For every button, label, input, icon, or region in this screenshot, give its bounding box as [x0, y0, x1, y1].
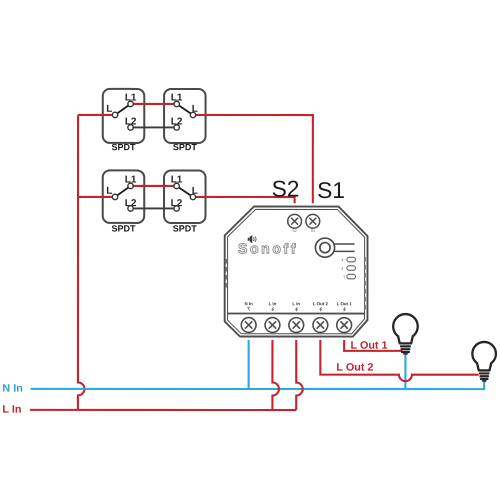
- SW4 pin labels L, L1, L2: [171, 175, 198, 210]
- SW3 pins: [112, 183, 133, 211]
- wire SW2.L to U1 terminal S1 (red): [193, 115, 313, 203]
- svg-text:S2: S2: [292, 229, 296, 233]
- SW1 lever: [115, 104, 131, 115]
- U1 LED labels: [341, 258, 345, 279]
- U1 terminal L Out 2: [313, 318, 328, 333]
- switch SW2 (SPDT) box: [164, 89, 206, 143]
- switch SW1 (SPDT) box: [103, 89, 145, 143]
- wire L Out 2 to lamp DS2 (red, dips under DS1 neutral): [320, 340, 478, 381]
- U1 terminal N In: [241, 318, 256, 333]
- svg-text:L Out 1: L Out 1: [337, 301, 353, 306]
- SW4 pins: [174, 183, 196, 211]
- U1 pairing button icon: [315, 238, 354, 257]
- svg-text:S2: S2: [272, 176, 300, 202]
- wire SW1 common feed (red): [78, 114, 114, 116]
- svg-text:?: ?: [343, 275, 345, 279]
- U1 terminal separation line: [228, 312, 365, 314]
- switch SW3 (SPDT) box: [103, 170, 145, 223]
- SW1 pin labels L, L1, L2: [106, 93, 137, 128]
- wire N In drop from U1 (blue): [248, 340, 250, 389]
- wire SW1.L1 to SW2.L1 (red traveller): [131, 103, 177, 105]
- wire L In riser (red, feeds SW1/SW3 commons, hops over N bus): [78, 115, 85, 410]
- U1 bottom terminal labels: [245, 301, 353, 306]
- svg-text:SPDT: SPDT: [112, 142, 137, 152]
- wire L In drop b from U1 (red, hops over N bus): [296, 340, 303, 410]
- SW2 lever: [177, 104, 193, 115]
- wire SW4.L to U1 terminal S2 (red): [193, 197, 295, 203]
- SW2 pin labels L, L1, L2: [171, 93, 198, 128]
- svg-text:4⁻: 4⁻: [341, 258, 345, 262]
- U1 LED indicators: [347, 257, 356, 279]
- svg-text:N In: N In: [2, 383, 22, 395]
- U1 terminal L Out 1: [337, 318, 352, 333]
- svg-text:L Out 2: L Out 2: [336, 362, 373, 374]
- U1 terminal S2: [288, 214, 302, 228]
- U1 terminal S1: [306, 214, 320, 228]
- svg-text:SPDT: SPDT: [112, 224, 137, 234]
- switch SW4 (SPDT) box: [164, 170, 206, 223]
- lamp DS1 (bulb): [393, 314, 418, 355]
- U1 left edge clips: [225, 259, 227, 288]
- relay module U1 (Sonoff Dual) body outline: [225, 206, 368, 336]
- wire DS1 neutral drop (blue): [404, 353, 406, 390]
- U1 terminal L In a: [265, 318, 280, 333]
- wire L bus (red live): [30, 409, 296, 411]
- svg-text:L Out 2: L Out 2: [313, 301, 329, 306]
- wire N bus (blue neutral, to lamp DS2): [31, 380, 485, 389]
- SW3 lever: [115, 186, 131, 197]
- U1 bottom terminal rating marks: [247, 307, 345, 311]
- SW3 pin labels L, L1, L2: [106, 175, 137, 210]
- wire L Out 1 to lamp DS1 (red): [344, 340, 402, 351]
- svg-text:L: L: [106, 186, 112, 197]
- wire SW3.L1 to SW4.L1 (red traveller): [131, 185, 177, 187]
- svg-text:L In: L In: [2, 404, 21, 416]
- wire SW3.L2 to SW4.L2 (traveller): [131, 207, 177, 209]
- U1 terminal L In b: [289, 318, 304, 333]
- svg-text:L: L: [106, 104, 112, 115]
- svg-text:SPDT: SPDT: [173, 224, 198, 234]
- svg-text:L In: L In: [292, 301, 300, 306]
- U1 Sonoff logo: [238, 235, 296, 256]
- lamp DS2 (bulb): [472, 342, 496, 382]
- svg-text:4⁻: 4⁻: [341, 267, 345, 271]
- SW4 lever: [177, 186, 193, 197]
- SW2 pins: [174, 101, 196, 130]
- svg-text:S1: S1: [311, 229, 315, 233]
- svg-text:L In: L In: [269, 301, 277, 306]
- svg-text:L Out 1: L Out 1: [351, 340, 388, 352]
- U1 right edge clips: [364, 257, 366, 310]
- svg-text:S1: S1: [317, 177, 345, 203]
- wire L In drop a from U1 (red, hops over N bus): [272, 340, 279, 410]
- svg-text:Sonoff: Sonoff: [238, 240, 296, 256]
- SW1 pins: [112, 101, 133, 130]
- svg-text:N In: N In: [245, 301, 254, 306]
- wire SW1.L2 to SW2.L2 (traveller): [131, 126, 177, 128]
- svg-text:SPDT: SPDT: [173, 142, 198, 152]
- wire SW3 common feed (red): [78, 196, 114, 198]
